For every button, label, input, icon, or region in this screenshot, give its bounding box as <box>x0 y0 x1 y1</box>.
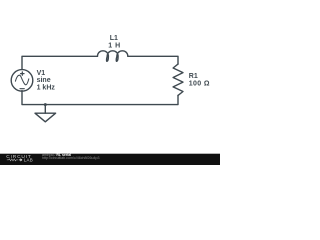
svg-text:LAB: LAB <box>24 158 33 163</box>
svg-text:R1: R1 <box>189 73 198 80</box>
svg-text:1 H: 1 H <box>108 42 120 49</box>
svg-text:100 Ω: 100 Ω <box>189 81 210 88</box>
svg-text:L1: L1 <box>110 35 118 42</box>
svg-text:sine: sine <box>37 77 51 84</box>
svg-text:http://circuitlab.com/c/46ch8f: http://circuitlab.com/c/46ch8f26u4p3 <box>42 156 100 160</box>
svg-text:1 kHz: 1 kHz <box>37 84 56 91</box>
